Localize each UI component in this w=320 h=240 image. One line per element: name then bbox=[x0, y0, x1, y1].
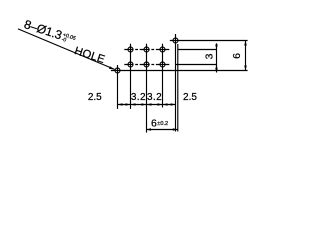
svg-text:3.2: 3.2 bbox=[147, 92, 162, 103]
svg-text:2.5: 2.5 bbox=[183, 92, 197, 103]
svg-text:3: 3 bbox=[203, 53, 215, 59]
svg-text:±0.2: ±0.2 bbox=[157, 121, 168, 127]
svg-text:6: 6 bbox=[151, 117, 157, 129]
svg-text:2.5: 2.5 bbox=[88, 92, 102, 103]
svg-text:3.2: 3.2 bbox=[131, 92, 146, 103]
svg-text:6: 6 bbox=[231, 53, 243, 59]
